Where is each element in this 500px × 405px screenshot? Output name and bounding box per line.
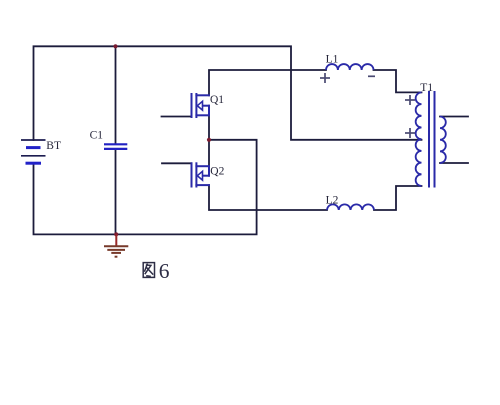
svg-text:BT: BT — [46, 140, 61, 152]
svg-text:L2: L2 — [326, 194, 339, 206]
svg-text:Q2: Q2 — [210, 165, 224, 177]
svg-text:L1: L1 — [326, 54, 339, 66]
svg-text:C1: C1 — [90, 129, 104, 141]
svg-text:6: 6 — [159, 259, 170, 283]
svg-text:Q1: Q1 — [210, 94, 224, 106]
svg-text:T1: T1 — [420, 82, 433, 94]
